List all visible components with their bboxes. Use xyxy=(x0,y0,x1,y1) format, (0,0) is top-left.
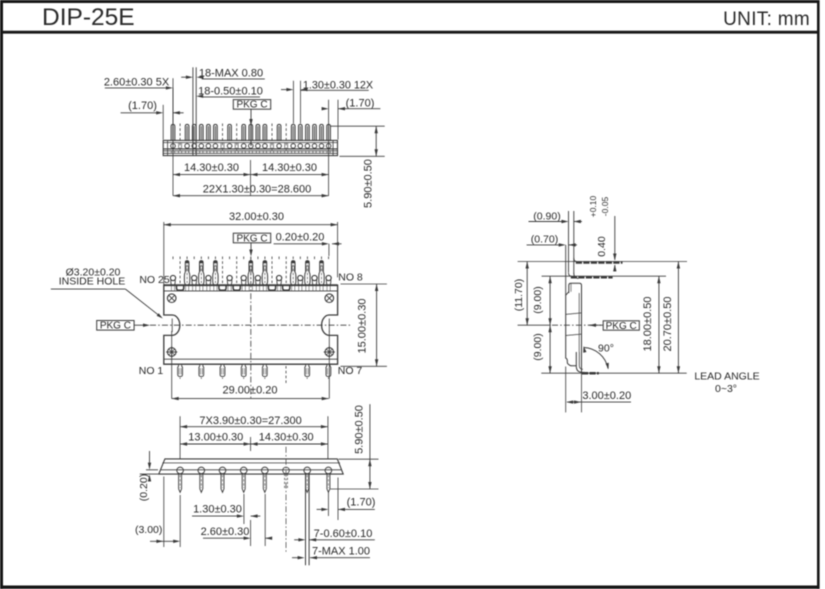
svg-text:(0.90): (0.90) xyxy=(533,210,560,222)
dimension 2.60 +/-0.30 view3 xyxy=(201,494,273,546)
view2 mounting screw top-right xyxy=(325,294,334,303)
svg-text:13.00±0.30: 13.00±0.30 xyxy=(188,431,243,443)
view3 long lead pin7 xyxy=(306,474,310,565)
label 18-0.50 +/-0.10 xyxy=(196,86,263,98)
dimension 3.00 +/-0.20 xyxy=(566,367,632,413)
svg-text:14.30±0.30: 14.30±0.30 xyxy=(184,162,239,174)
dimension (0.90) xyxy=(529,210,583,223)
label PKG C left leader xyxy=(97,321,150,332)
dimension 14.30 right half xyxy=(251,160,329,196)
view4 bottom bent lead xyxy=(576,352,599,373)
dimension 14.30 left half xyxy=(173,162,251,176)
dimension 22X1.30=28.600 xyxy=(173,88,329,197)
dimension 1.30 +/-0.30 view3 xyxy=(192,494,260,524)
view2 mounting screw bottom-right xyxy=(324,346,335,357)
view2 notch vertical center ticks xyxy=(172,319,330,399)
svg-text:-0.05: -0.05 xyxy=(600,197,610,217)
dimension 7-0.60 +/-0.10 xyxy=(294,528,375,542)
dimension 15.00 +/-0.30 xyxy=(341,284,387,366)
svg-text:NO 7: NO 7 xyxy=(338,365,363,377)
svg-text:(0.70): (0.70) xyxy=(531,234,558,246)
svg-text:DIP-25E: DIP-25E xyxy=(42,4,135,31)
svg-text:18.00±0.50: 18.00±0.50 xyxy=(642,297,654,352)
svg-text:1.30±0.30: 1.30±0.30 xyxy=(193,504,242,516)
dimension 32.00 +/-0.30 xyxy=(164,211,338,285)
view2 top row pins xyxy=(170,257,331,291)
svg-text:PKG C: PKG C xyxy=(236,233,267,244)
svg-text:NO 8: NO 8 xyxy=(338,271,363,283)
svg-text:(1.70): (1.70) xyxy=(347,497,376,509)
svg-text:7-0.60±0.10: 7-0.60±0.10 xyxy=(314,528,373,540)
view2 vertical center line xyxy=(250,258,252,399)
view4 second bent lead 18.00 level xyxy=(542,273,666,278)
dimension 0.40 +0.10 -0.05 xyxy=(588,195,616,271)
label 1.30 +/-0.30 12X xyxy=(281,79,373,123)
view2 body outline xyxy=(164,285,338,364)
dimension 20.70 +/-0.50 xyxy=(662,262,680,374)
dimension (1.70) view3 xyxy=(317,478,376,521)
extension line pin0 center xyxy=(172,78,174,123)
label PKG C view2 xyxy=(233,233,270,256)
view4 center line and PKG C xyxy=(518,321,640,332)
svg-text:PKG C: PKG C xyxy=(606,321,637,332)
svg-text:20.70±0.50: 20.70±0.50 xyxy=(662,297,674,352)
view2 top edge notches at vacant slots xyxy=(177,285,290,290)
svg-text:(1.70): (1.70) xyxy=(346,97,375,109)
svg-text:NO 1: NO 1 xyxy=(139,365,164,377)
svg-text:18-MAX 0.80: 18-MAX 0.80 xyxy=(199,68,263,80)
view4 body profile xyxy=(566,283,582,373)
svg-text:0~3°: 0~3° xyxy=(715,383,737,395)
dimension (1.70) left view1 xyxy=(121,100,184,140)
svg-text:18-0.50±0.10: 18-0.50±0.10 xyxy=(198,86,263,98)
dimension 14.30 +/-0.30 view3 xyxy=(251,431,328,445)
svg-text:22X1.30±0.30=28.600: 22X1.30±0.30=28.600 xyxy=(203,183,312,195)
dimension (9.00) upper xyxy=(532,276,552,325)
svg-text:3.00±0.20: 3.00±0.20 xyxy=(582,390,631,402)
dimension 0.20 +/-0.20 xyxy=(274,232,342,256)
label lead angle xyxy=(694,371,759,396)
svg-text:(0.20): (0.20) xyxy=(138,474,150,501)
view2 mounting screw top-left xyxy=(167,294,176,303)
svg-text:5.90±0.50: 5.90±0.50 xyxy=(354,405,366,454)
svg-text:2.60±0.30: 2.60±0.30 xyxy=(201,526,250,538)
svg-text:(11.70): (11.70) xyxy=(513,279,525,312)
view2 horizontal center line xyxy=(150,324,352,326)
svg-text:2.60±0.30 5X: 2.60±0.30 5X xyxy=(104,77,170,89)
dimension 90 degrees xyxy=(583,343,614,370)
dimension 5.90 +/-0.50 view3 xyxy=(330,404,378,489)
view3 pins xyxy=(177,447,332,552)
view4 top bent lead 20.70 level xyxy=(518,258,687,263)
view3 package bar xyxy=(159,459,343,474)
svg-text:(1.70): (1.70) xyxy=(128,100,157,112)
svg-text:(9.00): (9.00) xyxy=(532,286,544,313)
svg-text:15.00±0.30: 15.00±0.30 xyxy=(357,299,369,354)
label 18-MAX 0.80 xyxy=(181,68,265,80)
svg-text:0.40: 0.40 xyxy=(596,236,608,257)
dimension 18.00 +/-0.50 xyxy=(642,276,661,373)
dimension (3.00) xyxy=(135,477,180,548)
leader inside hole xyxy=(51,266,163,318)
svg-text:1.30±0.30 12X: 1.30±0.30 12X xyxy=(303,79,373,91)
dimension (1.70) right view1 xyxy=(322,97,381,139)
svg-text:7X3.90±0.30=27.300: 7X3.90±0.30=27.300 xyxy=(199,415,301,427)
svg-text:14.30±0.30: 14.30±0.30 xyxy=(262,162,317,174)
dimension (0.20) xyxy=(138,451,160,501)
svg-text:(3.00): (3.00) xyxy=(135,524,162,536)
svg-text:LEAD ANGLE: LEAD ANGLE xyxy=(694,371,759,383)
label PKG C view1 xyxy=(233,100,270,146)
leader lines to pin edges xyxy=(193,67,196,155)
view1 package bar xyxy=(163,140,337,155)
dimension 13.00 +/-0.30 xyxy=(180,431,251,451)
svg-text:PKG C: PKG C xyxy=(100,321,131,332)
svg-text:90°: 90° xyxy=(598,343,614,355)
svg-text:INSIDE HOLE: INSIDE HOLE xyxy=(59,275,126,287)
svg-text:5.90±0.50: 5.90±0.50 xyxy=(363,159,375,208)
svg-text:UNIT: mm: UNIT: mm xyxy=(723,9,810,30)
label 2.60 +/-0.30 5X xyxy=(104,77,173,90)
dimension 7-MAX 1.00 xyxy=(292,546,370,560)
view1 pin row xyxy=(171,124,331,154)
dimension (9.00) lower xyxy=(532,325,552,373)
svg-text:NO 25: NO 25 xyxy=(139,274,170,286)
svg-text:14.30±0.30: 14.30±0.30 xyxy=(259,431,314,443)
svg-text:7-MAX 1.00: 7-MAX 1.00 xyxy=(312,546,370,558)
svg-text:PKG C: PKG C xyxy=(236,100,267,111)
view2 bottom row pins xyxy=(178,365,331,383)
dimension (0.70) xyxy=(527,234,577,247)
view4 straight lead xyxy=(566,211,579,295)
svg-text:0.20±0.20: 0.20±0.20 xyxy=(276,232,325,244)
svg-text:29.00±0.20: 29.00±0.20 xyxy=(223,384,278,396)
svg-text:+0.10: +0.10 xyxy=(588,195,598,217)
svg-text:(9.00): (9.00) xyxy=(532,333,544,360)
view2 mounting screw bottom-left xyxy=(166,346,177,357)
title bar separator xyxy=(0,31,820,34)
svg-text:32.00±0.30: 32.00±0.30 xyxy=(229,211,284,223)
dimension 7X3.90=27.300 xyxy=(180,415,328,459)
dimension (11.70) xyxy=(513,262,529,326)
view4 seating line xyxy=(541,372,686,374)
dimension 29.00 +/-0.20 xyxy=(172,384,329,400)
dimension 5.90 vertical view1 xyxy=(330,126,385,208)
